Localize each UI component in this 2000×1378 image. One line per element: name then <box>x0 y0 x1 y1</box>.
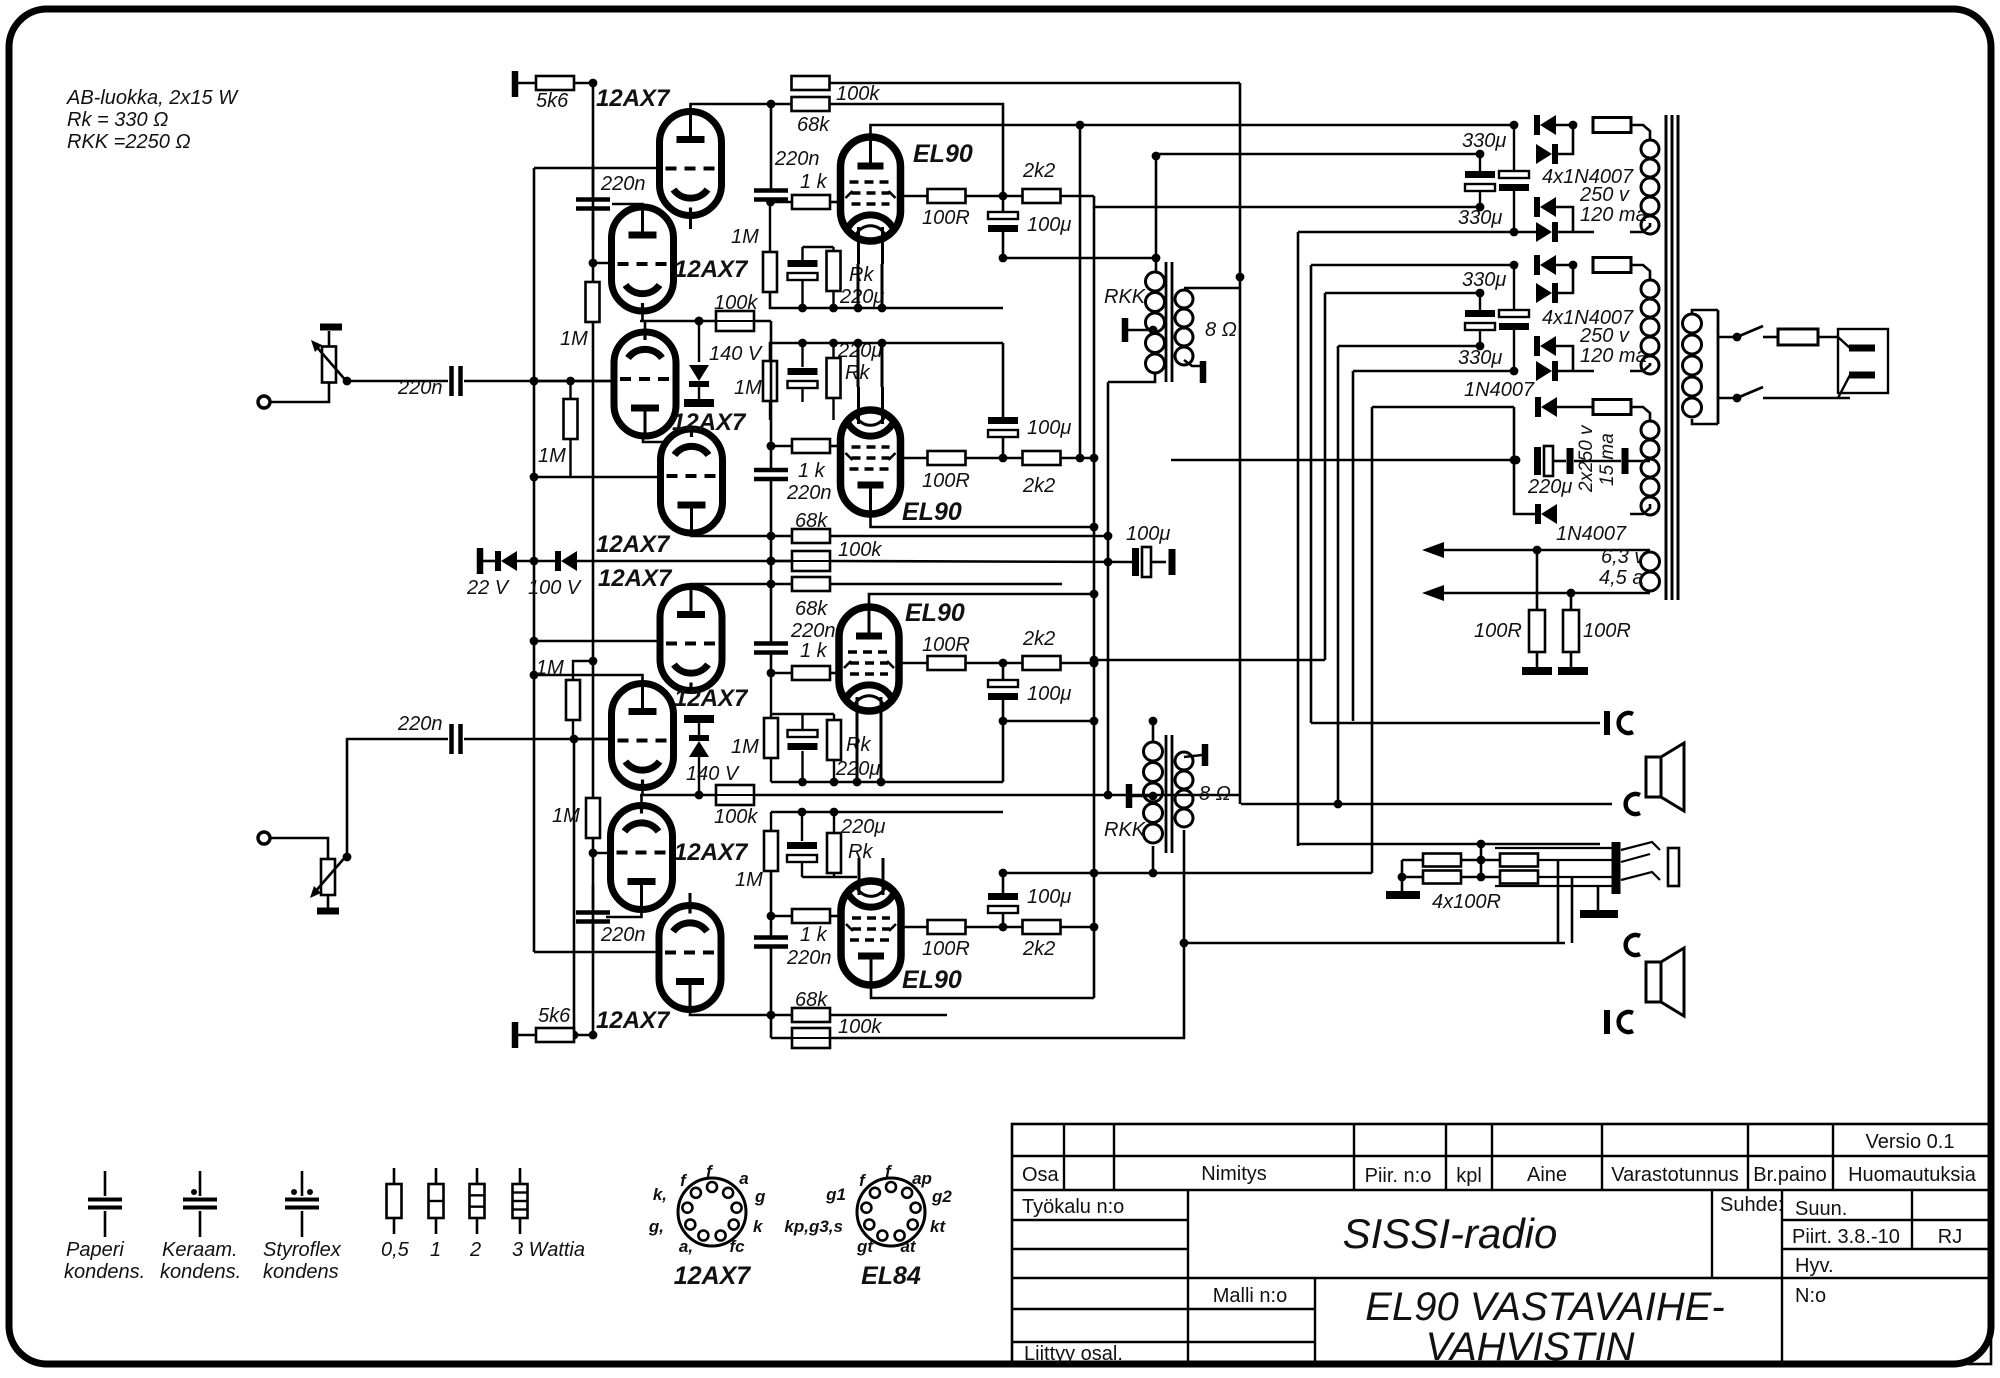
wire feed y346 <box>1338 345 1480 348</box>
resistor 100k bot <box>792 1028 830 1048</box>
resistor 1M E4 <box>764 831 778 871</box>
wire T6 cathode <box>641 788 644 795</box>
resistor 1M d <box>586 798 600 838</box>
svg-text:15 ma: 15 ma <box>1597 433 1618 486</box>
wire jack drop2 <box>1571 877 1574 943</box>
diode 100V <box>561 551 577 571</box>
resistor 1M b <box>564 399 578 439</box>
svg-text:AB-luokka, 2x15 W: AB-luokka, 2x15 W <box>66 87 239 109</box>
resistor 100Rc <box>1500 854 1538 867</box>
wire spk1 feed <box>1311 722 1600 725</box>
wire y943 jack <box>1184 942 1565 945</box>
resistor 2k2 E1 <box>999 192 1008 201</box>
svg-text:Työkalu n:o: Työkalu n:o <box>1022 1196 1124 1218</box>
svg-text:3 Wattia: 3 Wattia <box>512 1239 585 1261</box>
wire bus x771 low rows <box>771 915 792 918</box>
resistor Rk E2 <box>827 358 841 398</box>
diode D2 B1 <box>1536 144 1552 164</box>
transformer RKK1 secondary <box>1175 290 1193 308</box>
wire bus x1338 <box>1337 346 1340 804</box>
svg-text:2k2: 2k2 <box>1022 160 1055 182</box>
tube T5 12AX7 <box>660 587 722 691</box>
svg-text:1M: 1M <box>731 736 759 758</box>
svg-text:Paperi: Paperi <box>66 1239 124 1261</box>
speaker SP2 <box>1646 962 1661 1002</box>
connector spk2 top <box>1626 935 1640 955</box>
resistor 5k6 bottom <box>518 1034 536 1037</box>
svg-text:EL90: EL90 <box>913 140 973 168</box>
resistor 100k mid lower <box>716 785 754 805</box>
svg-text:1M: 1M <box>734 377 762 399</box>
resistor 68k mid low <box>792 577 830 591</box>
ground 100R h2 <box>1558 667 1588 675</box>
potentiometer P2 <box>321 859 335 895</box>
wire J1 to pot <box>270 382 329 402</box>
wire T1 cathode <box>689 216 692 229</box>
svg-text:Keraam.: Keraam. <box>162 1239 238 1261</box>
ground RKK1 left <box>1122 318 1129 342</box>
svg-text:Hyv.: Hyv. <box>1795 1255 1834 1277</box>
svg-text:Rk: Rk <box>848 841 873 863</box>
wire bus x771 up <box>770 321 773 469</box>
svg-text:12AX7: 12AX7 <box>596 1007 671 1034</box>
svg-text:100k: 100k <box>714 292 758 314</box>
wire T7 anode <box>606 910 642 917</box>
wire input upper <box>464 380 615 383</box>
svg-text:2k2: 2k2 <box>1022 938 1055 960</box>
svg-text:100μ: 100μ <box>1027 214 1071 236</box>
wire feed y265 <box>1311 264 1514 267</box>
svg-text:220n: 220n <box>790 620 836 642</box>
svg-text:12AX7: 12AX7 <box>672 409 747 436</box>
resistor 1k E4 <box>792 909 830 923</box>
wire feed y293 <box>1325 292 1480 295</box>
svg-text:g2: g2 <box>931 1187 952 1206</box>
resistor 68k mid up <box>792 529 830 543</box>
wire heater top <box>1444 549 1650 552</box>
svg-text:1 k: 1 k <box>800 171 828 193</box>
wire primary top to switch <box>1718 336 1737 339</box>
svg-text:100R: 100R <box>1474 620 1522 642</box>
wire RKK2 prim bot <box>1152 846 1155 873</box>
wire E4 anode bottom <box>871 985 1094 998</box>
svg-text:kpl: kpl <box>1456 1165 1482 1187</box>
wire feed y154 <box>1156 153 1480 156</box>
svg-text:kt: kt <box>930 1217 946 1236</box>
svg-text:330μ: 330μ <box>1462 269 1506 291</box>
svg-text:EL90: EL90 <box>902 966 962 994</box>
diode D bias top <box>1541 397 1557 417</box>
wire T3 anode out <box>643 436 664 442</box>
wire bias ct <box>1574 460 1621 463</box>
capacitor 330u B1b <box>1499 171 1529 178</box>
svg-text:100R: 100R <box>922 207 970 229</box>
wire RKK2 sec bot <box>1183 830 1186 943</box>
svg-text:k: k <box>753 1217 764 1236</box>
tube T2 12AX7 <box>612 207 674 311</box>
tube E1 EL90 <box>841 137 901 241</box>
diode D2 B2 <box>1536 283 1552 303</box>
svg-text:12AX7: 12AX7 <box>674 839 749 866</box>
svg-text:fc: fc <box>729 1237 745 1256</box>
svg-text:a: a <box>739 1169 748 1188</box>
wire B+ rail x1240 <box>1239 83 1242 804</box>
transformer W4 heater <box>1641 552 1660 571</box>
svg-text:2k2: 2k2 <box>1022 475 1055 497</box>
wire T2 grid <box>593 262 612 265</box>
svg-text:g: g <box>754 1187 766 1206</box>
potentiometer P1 <box>322 347 336 383</box>
wire T5 grid <box>534 640 660 643</box>
wire bus x1108 <box>1107 382 1110 795</box>
svg-text:5k6: 5k6 <box>536 90 569 112</box>
svg-text:RKK =2250 Ω: RKK =2250 Ω <box>67 131 191 153</box>
svg-text:Rk: Rk <box>849 264 874 286</box>
capacitor 220u E4 <box>787 842 817 849</box>
capacitor 220n rail upper <box>592 165 595 196</box>
svg-text:220n: 220n <box>397 377 443 399</box>
svg-text:Versio 0.1: Versio 0.1 <box>1866 1131 1955 1153</box>
legend resistor 0,5W <box>393 1168 396 1184</box>
diode D1 B2 <box>1540 255 1556 275</box>
svg-text:1M: 1M <box>735 869 763 891</box>
capacitor 100u E3 <box>988 680 1018 687</box>
wire 100R right <box>1538 859 1612 861</box>
resistor 100R E4 <box>901 926 928 929</box>
svg-text:100R: 100R <box>922 470 970 492</box>
tube T8 12AX7 <box>659 906 721 1010</box>
svg-text:1M: 1M <box>536 657 564 679</box>
wire feed y232 <box>1298 231 1537 234</box>
svg-text:330μ: 330μ <box>1458 347 1502 369</box>
svg-text:68k: 68k <box>795 510 828 532</box>
connector spk1 bot <box>1626 794 1640 814</box>
legend resistor 1W <box>435 1168 438 1184</box>
wire 1M c leads <box>573 661 593 680</box>
svg-text:12AX7: 12AX7 <box>596 85 671 112</box>
resistor 100Rd <box>1500 871 1538 884</box>
wire E3 out rail <box>1003 721 1094 782</box>
svg-text:Suhde:: Suhde: <box>1720 1194 1783 1216</box>
svg-text:220n: 220n <box>786 947 832 969</box>
svg-text:220n: 220n <box>774 148 820 170</box>
tube T4 12AX7 <box>661 429 723 533</box>
svg-text:Piir. n:o: Piir. n:o <box>1365 1165 1432 1187</box>
svg-text:0,5: 0,5 <box>381 1239 410 1261</box>
wire RKK1 feed <box>1155 156 1158 272</box>
wire T3 grid <box>534 380 615 383</box>
resistor 68k bot <box>792 1008 830 1022</box>
wire E3 krail <box>771 781 1003 784</box>
svg-text:ap: ap <box>912 1169 932 1188</box>
svg-text:1M: 1M <box>538 445 566 467</box>
wire E1 cathode rail <box>770 292 1003 308</box>
svg-text:Varastotunnus: Varastotunnus <box>1611 1164 1739 1186</box>
capacitor 220n rail lower <box>592 885 595 909</box>
svg-text:RKK: RKK <box>1104 286 1147 308</box>
svg-text:g1: g1 <box>825 1185 846 1204</box>
resistor 1M E1 <box>763 252 777 292</box>
speaker SP1 <box>1646 757 1661 797</box>
wire plug leads <box>1838 337 1850 348</box>
diode 140V lower <box>689 741 709 757</box>
resistor 1M E3 <box>764 718 778 758</box>
wire bus x1298 <box>1297 232 1300 846</box>
tube E2 EL90 <box>841 410 901 514</box>
wire feed y125 <box>1080 124 1514 127</box>
svg-text:SISSI-radio: SISSI-radio <box>1343 1210 1558 1257</box>
svg-text:EL90: EL90 <box>902 498 962 526</box>
svg-text:220μ: 220μ <box>1527 476 1572 498</box>
svg-text:Styroflex: Styroflex <box>263 1239 342 1261</box>
svg-text:1 k: 1 k <box>800 924 828 946</box>
diode D1 B1 <box>1540 115 1556 135</box>
diode D3 B2 <box>1540 336 1556 356</box>
bar 140V lower <box>684 715 714 723</box>
wire T7 grid <box>593 852 611 855</box>
wire T6 anode top <box>534 675 643 683</box>
wire bus x771 rows <box>771 535 792 538</box>
wire E4 leads dn <box>801 863 803 877</box>
svg-text:250 v: 250 v <box>1579 184 1630 206</box>
svg-text:4,5 a: 4,5 a <box>1599 567 1643 589</box>
resistor 100R E1 <box>900 195 928 198</box>
legend socket 12AX7 <box>678 1178 746 1246</box>
capacitor 330u B1a <box>1465 171 1495 178</box>
legend resistor 2W <box>476 1168 479 1184</box>
svg-text:Rk = 330 Ω: Rk = 330 Ω <box>67 109 168 131</box>
input jack J2 <box>258 832 270 844</box>
svg-text:100 V: 100 V <box>528 577 582 599</box>
svg-text:Br.paino: Br.paino <box>1753 1164 1826 1186</box>
svg-text:12AX7: 12AX7 <box>674 1262 752 1290</box>
terminal bar 5k6 top <box>512 71 519 97</box>
transformer W3 sec <box>1641 421 1659 439</box>
wire bus x1325 <box>1324 293 1327 660</box>
wire bus x1094 low <box>1093 207 1096 998</box>
resistor 100Ra <box>1423 854 1461 867</box>
wire E4 top rail <box>771 811 1003 814</box>
diode D3 B1 <box>1540 197 1556 217</box>
legend paper cap <box>104 1171 107 1196</box>
svg-text:Malli n:o: Malli n:o <box>1213 1285 1287 1307</box>
resistor 100k top <box>792 76 830 90</box>
jack sleeve <box>1668 848 1679 886</box>
wire T6 grid <box>574 738 612 741</box>
arrow heater top <box>1422 542 1444 558</box>
resistor 5k6 top <box>518 82 536 85</box>
svg-text:a,: a, <box>679 1237 693 1256</box>
svg-text:12AX7: 12AX7 <box>674 256 749 283</box>
capacitor 220u E1 <box>788 260 818 267</box>
tube T1 12AX7 <box>660 112 722 216</box>
legend ceramic cap <box>199 1171 202 1196</box>
fuse F2 <box>1593 258 1631 273</box>
wire y873 E4 <box>1003 872 1372 875</box>
wire E3 top leads <box>770 673 772 718</box>
legend styroflex cap <box>301 1171 304 1196</box>
resistor 1M a <box>586 282 600 322</box>
svg-text:VAHVISTIN: VAHVISTIN <box>1426 1325 1635 1369</box>
bar 140V upper <box>684 399 714 407</box>
wire feed y460 bias <box>1171 459 1514 462</box>
capacitor 100u mid <box>1132 548 1139 576</box>
svg-text:100μ: 100μ <box>1126 523 1170 545</box>
resistor 68k top <box>771 103 792 106</box>
ground 100R h1 <box>1522 667 1552 675</box>
transformer RKK2 secondary <box>1175 752 1193 770</box>
svg-text:220μ: 220μ <box>839 286 884 308</box>
svg-text:100k: 100k <box>714 806 758 828</box>
capacitor 330u B2b <box>1499 310 1529 317</box>
transformer W2 sec <box>1641 280 1659 298</box>
wire 100R left <box>1402 859 1423 862</box>
tube E4 EL90 <box>841 881 901 985</box>
svg-text:1 k: 1 k <box>800 640 828 662</box>
legend socket EL84 <box>857 1178 925 1246</box>
wire feed y407 <box>1372 406 1514 409</box>
connector spk1 top <box>1604 711 1610 735</box>
svg-text:Osa: Osa <box>1022 1164 1060 1186</box>
jack contacts <box>1495 847 1612 849</box>
wire bus x1311 <box>1310 265 1313 723</box>
capacitor 220n input upper <box>449 366 454 396</box>
svg-text:5k6: 5k6 <box>538 1005 571 1027</box>
resistor 1M E2 <box>763 361 777 401</box>
svg-text:22 V: 22 V <box>466 577 510 599</box>
svg-text:2x250 v: 2x250 v <box>1576 424 1597 493</box>
capacitor 330u B2a <box>1465 310 1495 317</box>
wire input lower <box>464 738 612 741</box>
svg-text:g,: g, <box>648 1217 664 1236</box>
svg-text:1 k: 1 k <box>798 460 826 482</box>
ground 4x100R <box>1401 884 1404 891</box>
wire 1M b leads <box>569 381 571 399</box>
ground RKK1 right <box>1200 361 1207 383</box>
terminal bar 22V <box>477 548 484 574</box>
svg-text:Piirt. 3.8.-10: Piirt. 3.8.-10 <box>1792 1226 1900 1248</box>
svg-text:RKK: RKK <box>1104 819 1147 841</box>
wire T8 anode <box>690 1009 771 1015</box>
svg-text:EL90: EL90 <box>905 599 965 627</box>
svg-text:140 V: 140 V <box>709 343 763 365</box>
svg-text:Nimitys: Nimitys <box>1201 1163 1267 1185</box>
wire E3 anode top <box>869 594 1094 607</box>
wire T4 anode bottom <box>692 533 772 536</box>
svg-text:220μ: 220μ <box>840 816 885 838</box>
wire P1 wiper out <box>347 380 448 383</box>
svg-text:1M: 1M <box>560 328 588 350</box>
svg-text:EL90 VASTAVAIHE-: EL90 VASTAVAIHE- <box>1365 1285 1724 1329</box>
resistor 1k E2 <box>771 445 792 448</box>
svg-text:330μ: 330μ <box>1458 207 1502 229</box>
tube T7 12AX7 <box>611 806 673 910</box>
tube T6 12AX7 <box>612 684 674 788</box>
svg-text:140 V: 140 V <box>686 763 740 785</box>
title block grid <box>1012 1124 1991 1364</box>
svg-text:Aine: Aine <box>1527 1164 1567 1186</box>
resistor 100R E2 <box>900 457 928 460</box>
jack bar <box>1612 842 1621 894</box>
svg-text:EL84: EL84 <box>861 1262 921 1290</box>
ground RKK2 right <box>1202 744 1209 766</box>
wire bus V1 <box>533 168 536 952</box>
resistor Rk E4 <box>827 833 841 873</box>
wire spk1 bot <box>1241 803 1612 806</box>
wire bias left <box>1514 407 1537 514</box>
svg-text:250 v: 250 v <box>1579 325 1630 347</box>
connector spk2 bot <box>1604 1010 1610 1034</box>
switch S1b <box>1737 387 1763 398</box>
svg-text:68k: 68k <box>797 114 830 136</box>
capacitor 100u E4 <box>988 893 1018 900</box>
wire E2 bottom leads <box>769 401 771 420</box>
capacitor 100u E2 <box>988 417 1018 424</box>
resistor Rk E1 <box>827 251 841 291</box>
capacitor 220u E3 <box>788 730 818 737</box>
transformer RKK2 primary <box>1144 742 1163 761</box>
svg-text:100R: 100R <box>922 938 970 960</box>
wire T3 cathode top <box>644 321 647 336</box>
resistor 2k2 E2 <box>1023 451 1061 465</box>
svg-text:1M: 1M <box>552 805 580 827</box>
jack ground <box>1597 886 1600 910</box>
resistor 100R E3 <box>899 662 928 665</box>
svg-text:12AX7: 12AX7 <box>674 685 749 712</box>
svg-text:100μ: 100μ <box>1027 886 1071 908</box>
svg-text:Liittyy osal.: Liittyy osal. <box>1024 1343 1123 1365</box>
capacitor 220n input lower <box>449 724 454 754</box>
diode D4 B1 <box>1536 222 1552 242</box>
capacitor 220n E1 <box>770 104 773 190</box>
transformer RKK1 core <box>1165 262 1168 382</box>
svg-text:100k: 100k <box>836 83 880 105</box>
wire RKK1 sec bot <box>1184 360 1203 366</box>
wire T8 cathode <box>689 893 692 906</box>
resistor 2k2 E3 <box>999 659 1008 668</box>
capacitor 220u E2 <box>788 368 818 375</box>
tube E3 EL90 <box>839 607 899 711</box>
wire 100k mid2 out <box>830 561 1132 562</box>
svg-text:kp,g3,s: kp,g3,s <box>784 1217 843 1236</box>
svg-text:kondens: kondens <box>263 1261 339 1283</box>
svg-text:gt: gt <box>856 1237 874 1256</box>
svg-text:100k: 100k <box>838 539 882 561</box>
fuse F mains <box>1778 329 1818 345</box>
diode D4 B2 <box>1536 361 1552 381</box>
wire P2 wiper out <box>347 739 448 857</box>
svg-text:100μ: 100μ <box>1027 683 1071 705</box>
svg-text:8 Ω: 8 Ω <box>1205 319 1237 341</box>
diode 22V <box>483 560 497 563</box>
svg-text:220n: 220n <box>600 173 646 195</box>
svg-text:8 Ω: 8 Ω <box>1199 783 1231 805</box>
arrow heater bot <box>1422 585 1444 601</box>
wire T2 anode <box>612 204 643 207</box>
diode 140V upper <box>698 321 700 362</box>
resistor 2k2 E4 <box>999 923 1008 932</box>
svg-text:2k2: 2k2 <box>1022 628 1055 650</box>
wire bus V3 <box>592 83 595 1035</box>
svg-text:100μ: 100μ <box>1027 417 1071 439</box>
wire bus x771 low <box>770 871 773 937</box>
resistor 100R heater2 <box>1570 593 1573 612</box>
wire RKK1 sec top <box>1184 287 1240 290</box>
svg-text:100R: 100R <box>1583 620 1631 642</box>
resistor 1k E3 <box>771 672 792 675</box>
svg-text:RJ: RJ <box>1938 1226 1962 1248</box>
wire heater bot <box>1444 592 1650 595</box>
